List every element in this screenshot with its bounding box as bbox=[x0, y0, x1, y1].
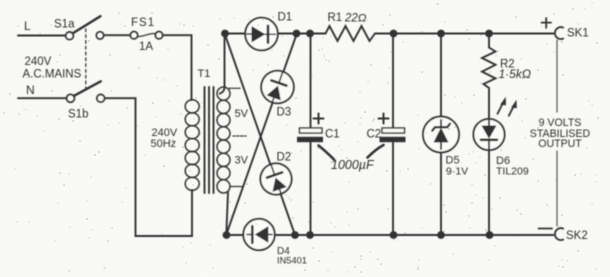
wire fuse to transformer primary top bbox=[163, 35, 192, 100]
resistor R1 bbox=[326, 26, 376, 41]
node bridge out- bbox=[291, 231, 299, 239]
wire S1a to fuse bbox=[104, 34, 131, 36]
svg-text:D2: D2 bbox=[277, 152, 292, 164]
label 9 VOLTS STABILISED OUTPUT bbox=[530, 117, 591, 150]
secondary tap mark top bbox=[230, 87, 241, 89]
transformer T1 primary winding bbox=[185, 100, 199, 191]
svg-text:240V: 240V bbox=[25, 56, 52, 68]
node C1 bottom bbox=[306, 231, 314, 239]
svg-text:S1a: S1a bbox=[54, 19, 75, 31]
svg-text:N: N bbox=[26, 83, 35, 97]
ganged switch link dashed bbox=[85, 29, 87, 88]
svg-text:A.C.MAINS: A.C.MAINS bbox=[23, 69, 82, 81]
node C2 bottom bbox=[390, 231, 398, 239]
node bridge AC top bbox=[221, 30, 229, 38]
svg-text:TIL209: TIL209 bbox=[496, 166, 529, 178]
svg-text:1A: 1A bbox=[139, 41, 153, 53]
wire top rail to R1 bbox=[278, 33, 326, 35]
zener diode D5 bbox=[423, 34, 459, 236]
wire secondary top to bridge node bbox=[220, 34, 225, 94]
rectifier diode D1 bbox=[245, 18, 278, 51]
label minus output bbox=[539, 228, 553, 230]
switch S1b bbox=[67, 81, 105, 102]
node C1 top bbox=[306, 30, 314, 38]
node D5 top bbox=[437, 30, 445, 38]
svg-text:50Hz: 50Hz bbox=[151, 138, 177, 150]
diagonal wire B (bottom-left to top-right) bbox=[227, 35, 297, 235]
secondary tap mark bottom bbox=[231, 186, 243, 188]
secondary tap mark centre bbox=[233, 135, 246, 137]
node D5 bottom bbox=[437, 231, 445, 239]
svg-text:OUTPUT: OUTPUT bbox=[538, 138, 582, 150]
capacitor C1 bbox=[297, 34, 323, 236]
node bridge AC bottom bbox=[223, 231, 231, 239]
wire top rail right of R1 bbox=[375, 33, 554, 35]
svg-text:22Ω: 22Ω bbox=[344, 13, 367, 25]
svg-text:SK2: SK2 bbox=[566, 230, 588, 242]
socket SK1 bbox=[555, 27, 563, 39]
svg-text:D1: D1 bbox=[278, 12, 293, 24]
node bridge out+ bbox=[293, 30, 301, 38]
transformer T1 secondary winding bbox=[217, 87, 230, 193]
svg-text:1·5kΩ: 1·5kΩ bbox=[499, 67, 531, 81]
fuse FS1 bbox=[130, 32, 162, 39]
wire L lead bbox=[18, 35, 66, 37]
svg-text:R1: R1 bbox=[328, 12, 343, 24]
capacitor C2 bbox=[380, 34, 406, 236]
wire secondary bottom to bridge node bbox=[226, 193, 228, 233]
switch S1a bbox=[66, 16, 104, 39]
resistor R2 bbox=[482, 34, 496, 120]
LED light arrow 2 bbox=[509, 100, 517, 116]
wire output side vertical lower bbox=[556, 151, 558, 226]
wire S1b to transformer primary bottom bbox=[105, 98, 193, 236]
label C2 plus bbox=[379, 114, 389, 124]
rectifier diode D2 bbox=[256, 159, 296, 199]
svg-text:T1: T1 bbox=[198, 68, 211, 80]
node D6 bottom bbox=[486, 231, 494, 239]
leader line C1 value bbox=[319, 146, 335, 160]
svg-text:L: L bbox=[24, 19, 31, 33]
LED D6 bbox=[473, 119, 504, 235]
transformer core bbox=[205, 87, 214, 193]
svg-text:FS1: FS1 bbox=[131, 17, 155, 29]
svg-text:3V: 3V bbox=[235, 155, 249, 167]
node R2 top bbox=[485, 30, 493, 38]
label plus output bbox=[542, 18, 552, 28]
wire N lead bbox=[18, 97, 66, 99]
wire top rail left bbox=[225, 33, 245, 35]
svg-text:C1: C1 bbox=[325, 129, 340, 141]
socket SK2 bbox=[555, 228, 563, 240]
label C1 plus bbox=[314, 114, 324, 124]
svg-text:IN5401: IN5401 bbox=[277, 256, 307, 266]
svg-text:5V: 5V bbox=[235, 108, 249, 120]
svg-text:D3: D3 bbox=[277, 107, 292, 119]
svg-text:C2: C2 bbox=[367, 129, 382, 141]
wire bottom rail left bbox=[227, 234, 244, 236]
leader line C2 value bbox=[368, 145, 384, 158]
node C2 top bbox=[390, 30, 398, 38]
rectifier diode D4 bbox=[243, 219, 274, 250]
wire bottom rail right bbox=[275, 234, 554, 236]
rectifier diode D3 bbox=[257, 66, 298, 107]
diagonal wire A (top-left to bottom-right) bbox=[225, 35, 295, 236]
svg-text:SK1: SK1 bbox=[567, 28, 589, 40]
wire output side vertical upper bbox=[556, 40, 558, 112]
LED light arrow 1 bbox=[498, 97, 506, 114]
svg-text:9·1V: 9·1V bbox=[446, 166, 468, 178]
svg-text:1000µF: 1000µF bbox=[331, 158, 375, 172]
svg-text:S1b: S1b bbox=[68, 109, 88, 121]
